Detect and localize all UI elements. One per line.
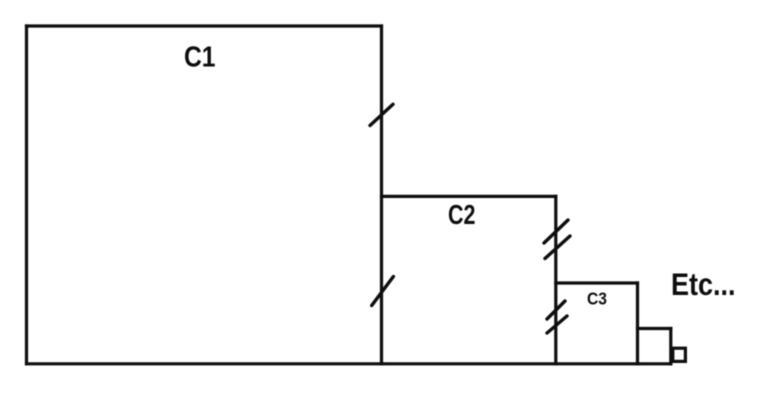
- svg-text:C3: C3: [587, 289, 607, 309]
- svg-text:C1: C1: [184, 42, 216, 74]
- svg-text:C2: C2: [448, 199, 476, 230]
- svg-text:Etc...: Etc...: [671, 266, 736, 302]
